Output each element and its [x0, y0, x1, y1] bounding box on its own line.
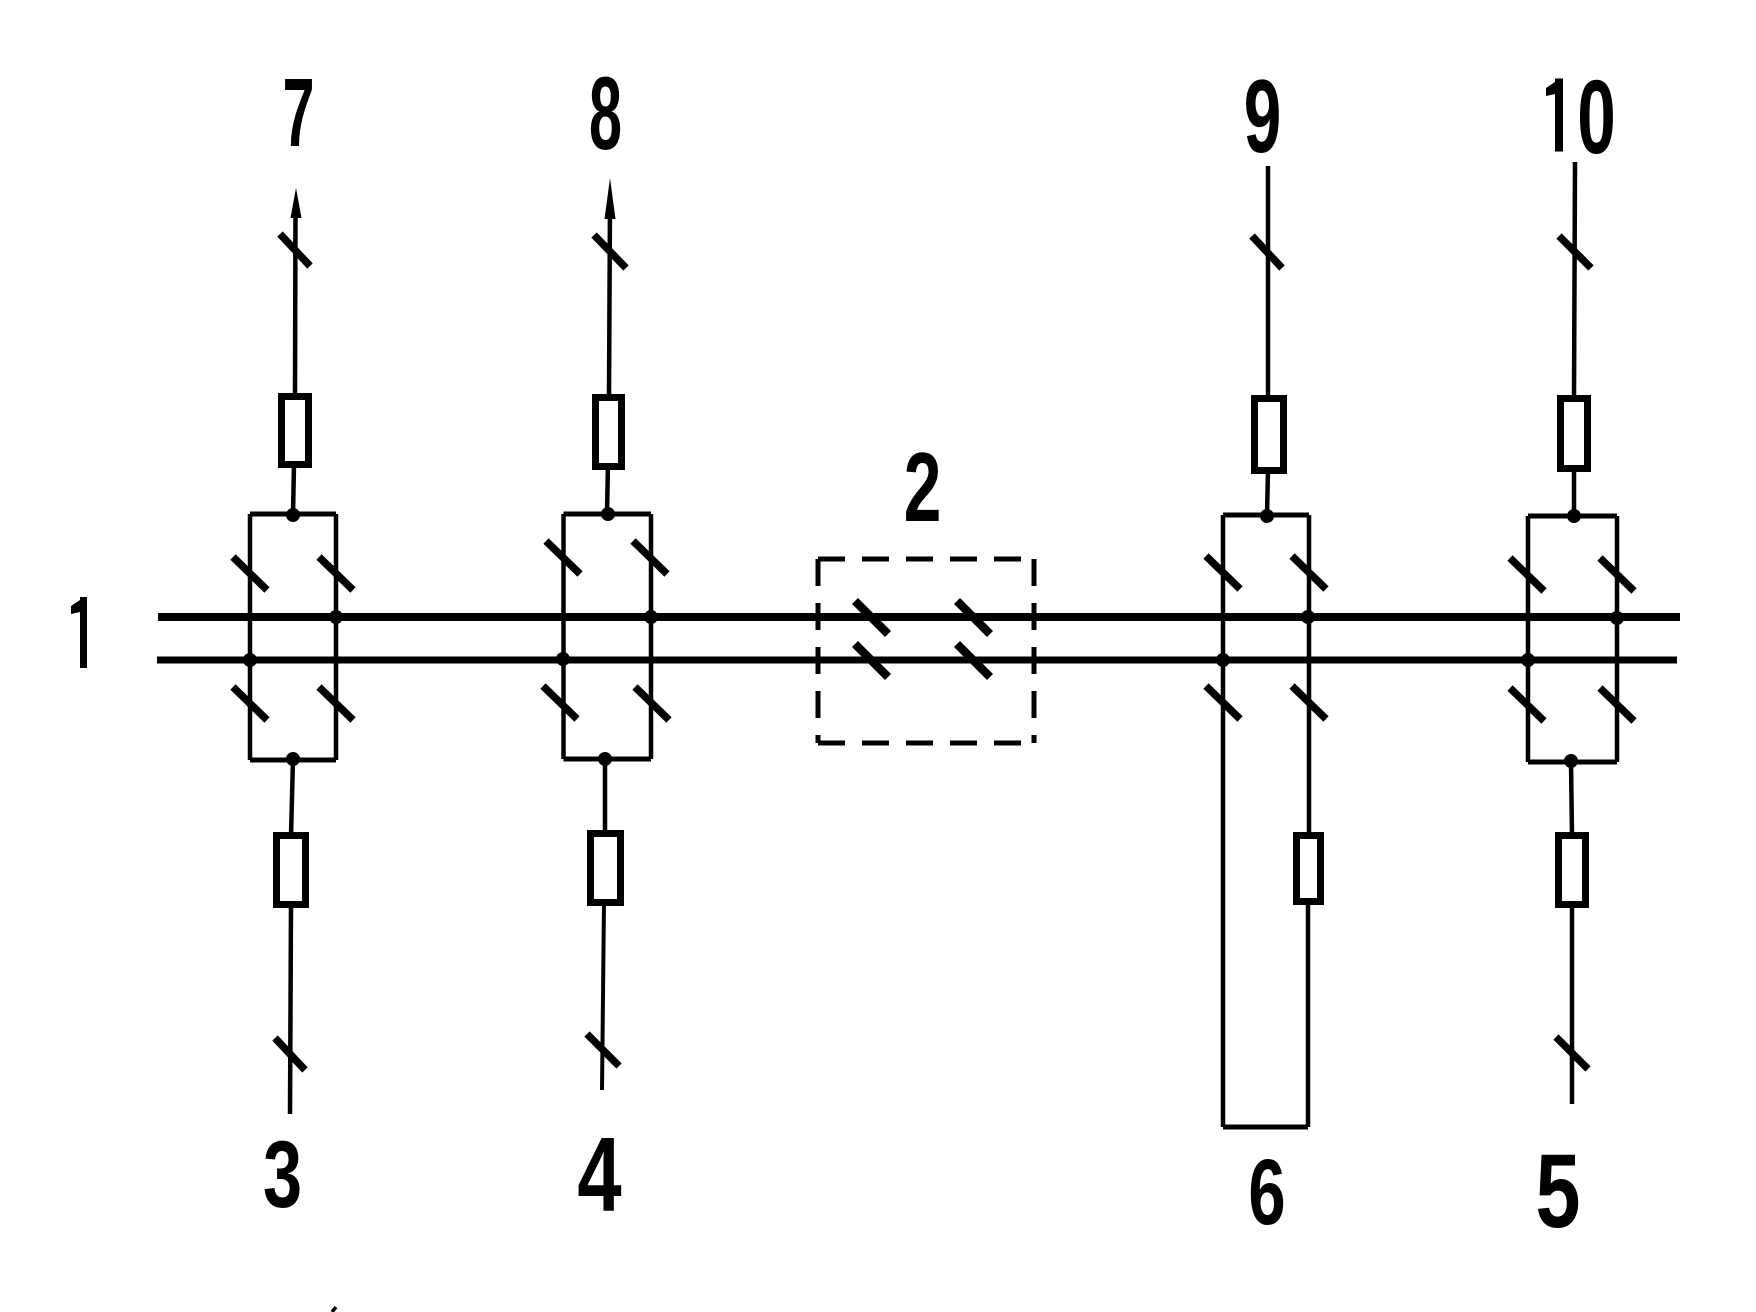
node: bottom junction dot of bay B [598, 752, 612, 766]
bay C box top line [1223, 513, 1309, 518]
disconnector slash on feeder 9 [1252, 236, 1282, 268]
fuse F9 (upper fuse of bay C) [1255, 399, 1284, 471]
svg-text:4: 4 [577, 1115, 621, 1234]
stray ink tick at bottom edge [332, 1307, 336, 1312]
wire: feeder 5 line below fuse [1570, 904, 1575, 1104]
wire: feeder 8 line above fuse [609, 200, 610, 397]
disconnector slash upper right leg bay D [1600, 558, 1634, 591]
disconnector slash on feeder 4 [587, 1034, 619, 1066]
wire: feeder 7 line above fuse [293, 206, 298, 396]
bay D right leg wire [1615, 516, 1620, 762]
bay C left leg wire (long, down to load 6) [1221, 515, 1226, 1127]
disconnector slash on feeder 10 [1559, 236, 1591, 268]
svg-text:2: 2 [904, 433, 942, 542]
bay D box bottom line [1528, 760, 1617, 765]
fuse F3 (lower fuse of bay A) [277, 836, 306, 905]
disconnector slash lower right leg bay D [1600, 688, 1634, 721]
disconnector slash upper left leg bay B [546, 541, 580, 574]
disconnector slash upper right leg bay A [319, 557, 353, 590]
bay A box top line [250, 512, 336, 517]
bay A right leg wire [334, 514, 339, 760]
fuse F6 (fuse in right leg of bay C) [1297, 836, 1321, 902]
svg-text:3: 3 [263, 1121, 302, 1228]
fuse F8 (upper fuse of bay B) [596, 398, 622, 467]
node: bay B right leg to bus 1 [644, 610, 658, 624]
disconnector slash lower right leg bay B [635, 687, 669, 720]
fuse F4 (lower fuse of bay B) [591, 834, 621, 903]
wire: feeder 3 line below fuse [290, 904, 291, 1114]
disconnector slash lower left leg bay A [233, 687, 267, 720]
wire: fuse F8 to bay box [607, 463, 608, 513]
disconnector slash lower left leg bay B [543, 686, 577, 719]
node: bay A left leg to bus 2 [243, 653, 257, 667]
fuse F5 (lower fuse of bay D) [1559, 836, 1586, 905]
svg-text:6: 6 [1248, 1141, 1285, 1244]
arrowhead of feeder 7 [291, 188, 302, 218]
node: bay A right leg to bus 1 [329, 610, 343, 624]
node: bottom junction dot of bay A [286, 752, 300, 766]
disconnector slash lower left leg bay C [1206, 686, 1240, 719]
node: top junction dot of bay C [1260, 509, 1274, 523]
wire: feeder 10 line above fuse [1574, 162, 1575, 398]
switch slash 2 on bus 2 inside coupler 2 [957, 644, 990, 677]
switch slash 2 on bus 1 inside coupler 2 [957, 601, 990, 634]
disconnector slash on feeder 3 [275, 1038, 305, 1070]
bay A left leg wire [248, 514, 253, 760]
bay D box top line [1528, 514, 1617, 519]
switch slash 1 on bus 1 inside coupler 2 [855, 601, 888, 634]
fuse F7 (upper fuse of bay A) [282, 397, 309, 465]
bay C right leg wire lower part [1306, 901, 1311, 1127]
disconnector slash lower right leg bay A [319, 687, 353, 720]
disconnector slash on feeder 8 [594, 235, 626, 268]
bay C right leg wire upper part [1307, 515, 1312, 835]
bay A box bottom line [250, 758, 336, 763]
wire: bay B bottom dot to fuse F4 [603, 759, 608, 834]
node: top junction dot of bay A [286, 508, 300, 522]
bus 2 (lower busbar of double busbar system) [157, 657, 1677, 664]
node: bay D right leg to bus 1 [1610, 611, 1624, 625]
wire: bay D bottom dot to fuse F5 [1571, 761, 1572, 836]
bay B box top line [564, 512, 652, 517]
wire: bay A bottom dot to fuse F3 [291, 759, 293, 836]
disconnector slash lower left leg bay D [1510, 688, 1544, 721]
node: bay C right leg to bus 1 [1301, 610, 1315, 624]
wire: fuse F9 to bay box [1267, 468, 1268, 516]
wire: feeder 4 line below fuse [602, 902, 604, 1090]
bay B left leg wire [561, 514, 566, 759]
disconnector slash on feeder 5 [1556, 1037, 1588, 1069]
bay B right leg wire [649, 514, 654, 759]
arrowhead of feeder 8 [605, 178, 616, 219]
label 1 (busbar system), drawn as path [71, 597, 87, 668]
svg-text:0: 0 [1577, 57, 1616, 175]
node: top junction dot of bay B [601, 507, 615, 521]
disconnector slash upper left leg bay C [1206, 556, 1240, 589]
node: bay B left leg to bus 2 [556, 652, 570, 666]
label 10: digit 1 drawn as path [1546, 79, 1563, 152]
disconnector slash upper right leg bay C [1292, 556, 1326, 589]
dashed enclosure left edge of coupler 2 [816, 559, 821, 743]
disconnector slash on feeder 7 [280, 234, 310, 266]
disconnector slash upper left leg bay D [1510, 558, 1544, 591]
dashed enclosure right edge of coupler 2 [1032, 559, 1037, 743]
bay D left leg wire [1526, 516, 1531, 762]
svg-text:7: 7 [283, 58, 315, 166]
node: bay C left leg to bus 2 [1216, 653, 1230, 667]
svg-text:9: 9 [1244, 58, 1282, 174]
node: bottom junction dot of bay D [1564, 754, 1578, 768]
svg-text:8: 8 [589, 54, 622, 171]
bus 1 (upper busbar of double busbar system) [158, 613, 1680, 621]
fuse F10 (upper fuse of bay D) [1561, 399, 1588, 469]
node: top junction dot of bay D [1567, 509, 1581, 523]
wire: fuse F7 to bay box [293, 464, 294, 514]
wire: fuse F10 to bay box [1572, 466, 1577, 516]
dashed enclosure top edge of coupler 2 [818, 557, 1034, 562]
bay B box bottom line [564, 757, 652, 762]
dashed enclosure bottom edge of coupler 2 [818, 741, 1034, 746]
disconnector slash upper right leg bay B [633, 541, 667, 574]
bay C box bottom line (load 6 connection) [1223, 1125, 1308, 1130]
disconnector slash lower right leg bay C [1292, 686, 1326, 719]
node: bay D left leg to bus 2 [1521, 653, 1535, 667]
svg-text:5: 5 [1536, 1132, 1581, 1250]
wire: feeder 9 line above fuse [1266, 166, 1271, 399]
switch slash 1 on bus 2 inside coupler 2 [855, 644, 888, 677]
disconnector slash upper left leg bay A [233, 557, 267, 590]
